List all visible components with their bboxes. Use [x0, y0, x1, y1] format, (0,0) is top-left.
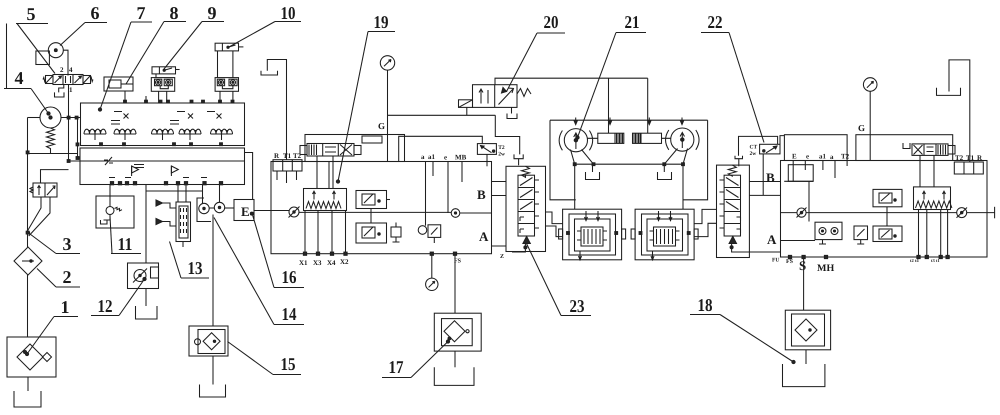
- svg-text:12: 12: [98, 296, 113, 316]
- gauge 19: [380, 56, 394, 70]
- wire filter2 to box1: [27, 275, 29, 337]
- svg-text:FU: FU: [772, 258, 779, 264]
- proportional valve right: [903, 143, 910, 149]
- wire cartridge bottom down: [762, 154, 764, 196]
- wires motors to gear blocks: [575, 164, 683, 209]
- svg-text:4: 4: [69, 66, 73, 74]
- right rail circle: [957, 208, 967, 218]
- drain tanks under motors: [592, 164, 594, 172]
- label 20 leader: [507, 12, 566, 92]
- valve 20 supply drop: [466, 107, 468, 115]
- svg-text:e: e: [806, 153, 809, 161]
- pilot unit 10 top bar: [215, 43, 243, 51]
- label 8 leader: [126, 3, 186, 84]
- svg-text:a: a: [421, 153, 425, 161]
- wire left edge pilot: [6, 24, 8, 89]
- wires left manifold to left stack: [492, 182, 507, 247]
- wires right stack to right manifold: [749, 182, 780, 196]
- svg-text:3: 3: [63, 234, 72, 254]
- left manifold outer block: [271, 162, 492, 254]
- label 5 leader: [16, 4, 55, 74]
- left stack valve 23 target: [506, 166, 546, 251]
- svg-text:21: 21: [625, 12, 640, 32]
- proportional valve on top sub-block: [300, 144, 361, 157]
- left brake cylinder: [598, 133, 624, 143]
- cartridge above left stack: [477, 144, 505, 158]
- left motor 21: [559, 129, 593, 152]
- manifold pump circle: [289, 207, 299, 217]
- svg-text:S: S: [799, 258, 806, 273]
- valve 20 body: [473, 85, 518, 108]
- wire E box to manifold pump: [254, 210, 289, 212]
- svg-text:a1: a1: [819, 153, 827, 161]
- svg-text:5: 5: [27, 4, 36, 24]
- ports R T1 T2: [273, 152, 302, 171]
- internal feed wires: [425, 162, 427, 226]
- svg-text:18: 18: [698, 295, 713, 315]
- inner corner rect: [788, 165, 813, 182]
- rail end bar: [967, 212, 995, 214]
- svg-text:G: G: [378, 121, 385, 131]
- wire 8 down: [124, 91, 126, 103]
- svg-text:10: 10: [281, 3, 296, 23]
- label 17 leader: [382, 340, 450, 378]
- block1 top port squares: [124, 100, 127, 103]
- wire x68.5 down: [68, 118, 70, 162]
- svg-text:a: a: [830, 153, 834, 161]
- svg-text:FS: FS: [786, 259, 794, 265]
- svg-text:B: B: [766, 170, 775, 185]
- svg-text:2: 2: [60, 66, 64, 74]
- svg-text:4: 4: [15, 68, 24, 88]
- filter 18: [785, 310, 830, 350]
- valve 11: [96, 196, 134, 228]
- label 1 leader: [25, 297, 78, 356]
- label 4 leader: [4, 68, 50, 115]
- valve 3: [30, 183, 57, 197]
- svg-text:t2 t4: t2 t4: [910, 258, 919, 263]
- main rail left manifold: [299, 211, 451, 213]
- E box 16: [234, 200, 254, 221]
- relief box right B: [873, 226, 902, 242]
- pump 6 circle: [48, 43, 63, 58]
- wire pump4 left to main suction bus: [28, 117, 41, 119]
- wire block1 x146 up: [145, 96, 147, 103]
- label 3 leader: [26, 231, 80, 254]
- label 14 leader: [214, 218, 304, 325]
- svg-text:1: 1: [61, 297, 70, 317]
- motor container: [550, 119, 708, 121]
- wire valve20 drain branch down: [495, 115, 519, 154]
- manifold block 1: [81, 103, 245, 146]
- drain tank top (left manifold return): [267, 60, 286, 160]
- relief valve box B: [356, 223, 387, 243]
- tank under box1: [27, 377, 29, 391]
- wires 9 down: [156, 74, 167, 103]
- wire cartridge across to drain tank: [739, 136, 778, 155]
- svg-text:MB: MB: [455, 154, 467, 162]
- compensator outputs to X ports: [305, 211, 346, 253]
- small valve with drain: [391, 223, 401, 243]
- restrictor on bus: [105, 157, 112, 165]
- label 23 leader: [527, 244, 592, 317]
- wire cartridge to right manifold: [780, 136, 784, 145]
- relief box right A: [873, 189, 902, 206]
- svg-text:20: 20: [544, 12, 559, 32]
- svg-text:15: 15: [281, 354, 296, 374]
- box 1 (pump unit with filter): [7, 337, 56, 377]
- svg-text:e: e: [444, 154, 447, 162]
- valve 20 solenoid: [459, 100, 473, 108]
- valve 12: [128, 263, 159, 289]
- wire block2 to E box top: [245, 153, 253, 200]
- wire S to filter 18: [803, 259, 805, 311]
- label 10 leader: [229, 3, 301, 47]
- wires to valve 13: [178, 185, 186, 203]
- wire pump4 to block1: [61, 117, 81, 119]
- ports T2 T1 R right: [954, 154, 983, 174]
- right manifold outer block: [781, 161, 988, 258]
- svg-text:14: 14: [282, 304, 297, 324]
- wire y153.5: [28, 153, 78, 155]
- right rail: [781, 212, 797, 214]
- svg-text:X1: X1: [299, 259, 308, 267]
- label 19 leader: [336, 12, 395, 183]
- pumps 14: [199, 203, 209, 213]
- block2 bottom port marks: [110, 182, 113, 185]
- pilot solenoid valve on rail: [418, 225, 441, 243]
- label 22 leader: [701, 12, 764, 143]
- label 12 leader: [91, 277, 146, 316]
- wire pumps to filter 15: [212, 215, 214, 327]
- bus inside block2: [69, 160, 245, 162]
- wire valve5 port down to pump line: [68, 85, 70, 118]
- svg-text:E: E: [241, 204, 250, 219]
- svg-text:13: 13: [188, 258, 203, 278]
- svg-text:G: G: [858, 123, 865, 133]
- stack 23 bottom arrow: [523, 236, 530, 243]
- svg-text:X2: X2: [340, 258, 349, 266]
- gear pump box right: [815, 222, 842, 244]
- label 11 leader: [110, 217, 141, 255]
- compensator outputs to bottom ports: [919, 210, 948, 256]
- svg-text:t3 t1: t3 t1: [931, 258, 940, 263]
- label 7 leader: [98, 3, 152, 111]
- svg-text:9: 9: [208, 3, 217, 23]
- label 9 leader: [164, 3, 224, 69]
- svg-text:2: 2: [63, 267, 72, 287]
- svg-text:7: 7: [137, 3, 146, 23]
- tank under 15: [212, 356, 214, 385]
- svg-text:X4: X4: [327, 259, 336, 267]
- motor drain bus: [575, 163, 683, 165]
- compensator right spring row: [914, 187, 951, 210]
- svg-text:2w: 2w: [750, 151, 757, 157]
- svg-text:T1: T1: [283, 152, 292, 160]
- right stack bottom arrow: [729, 236, 736, 243]
- valve 5 drain tank: [59, 85, 64, 93]
- tank top right: [949, 60, 970, 162]
- right brake cylinder: [633, 133, 662, 143]
- wire valve3 top: [41, 170, 69, 183]
- relief valve box A: [356, 191, 390, 209]
- svg-text:23: 23: [570, 296, 585, 316]
- small valve with drain right: [854, 226, 868, 244]
- gauge under left manifold: [431, 255, 433, 278]
- svg-text:B: B: [477, 187, 486, 202]
- wires valve3 down to bus: [28, 197, 41, 230]
- wire pump6 to valve5: [63, 50, 68, 75]
- drain tank above right stack: [735, 156, 743, 159]
- svg-text:E: E: [792, 153, 797, 161]
- valve 20 spring: [517, 89, 531, 97]
- label 13 leader: [170, 242, 210, 279]
- gauge right: [863, 78, 877, 92]
- svg-text:11: 11: [118, 234, 133, 254]
- wire pumps to E box: [225, 207, 234, 209]
- wire to valve 11: [109, 185, 111, 207]
- wire to valve 12: [145, 185, 147, 264]
- svg-text:6: 6: [91, 3, 100, 23]
- svg-text:1: 1: [69, 86, 73, 94]
- feeds prop valve to compensator left: [317, 156, 333, 189]
- compensator spring row: [304, 189, 347, 211]
- wire FS to filter 17: [454, 255, 456, 313]
- valve 20 drain to tank: [511, 107, 513, 113]
- brake feed drops: [609, 78, 648, 133]
- label 2 leader: [37, 267, 80, 287]
- valve clusters inside block1: [84, 129, 106, 140]
- svg-text:T1: T1: [966, 154, 975, 162]
- spring under pump 4: [47, 128, 55, 154]
- svg-text:16: 16: [282, 267, 297, 287]
- wire x77.5 down: [78, 118, 81, 159]
- right motor: [666, 128, 700, 151]
- label 6 leader: [60, 3, 107, 46]
- gear reduction block: [559, 209, 626, 260]
- valve 5 solenoids: [46, 76, 54, 84]
- wire subblock to cartridge left stack: [399, 136, 483, 161]
- wire G to valve20: [388, 114, 496, 116]
- container top ticks: [575, 118, 577, 124]
- valve 20 output to brake line: [495, 78, 648, 85]
- rail circle: [451, 209, 460, 218]
- svg-text:T2: T2: [498, 145, 505, 151]
- svg-text:A: A: [767, 232, 777, 247]
- svg-text:2w: 2w: [498, 152, 505, 158]
- filter 17: [434, 313, 481, 351]
- svg-text:8: 8: [170, 3, 179, 23]
- tank under 17: [454, 351, 456, 367]
- label 21 leader: [576, 12, 646, 139]
- tank under 12: [145, 289, 147, 307]
- block1 bottom port squares: [100, 143, 103, 146]
- svg-text:X3: X3: [313, 259, 322, 267]
- cylinder stubs: [588, 137, 671, 139]
- small drain tank right of cartridge: [514, 154, 523, 158]
- manifold block 2: [80, 148, 245, 185]
- wires stack to gear block: [546, 212, 563, 224]
- svg-text:T2: T2: [955, 154, 964, 162]
- svg-text:17: 17: [389, 357, 404, 377]
- svg-text:22: 22: [708, 12, 723, 32]
- label 15 leader: [228, 342, 302, 375]
- svg-text:CT: CT: [750, 145, 758, 151]
- bracket of pump 6: [36, 51, 50, 65]
- svg-text:R: R: [274, 152, 280, 160]
- right manifold pump circle: [797, 208, 806, 217]
- tank under 18: [805, 350, 807, 364]
- pump 4 circle: [40, 107, 61, 128]
- pilot unit 9 top bar: [152, 67, 180, 74]
- svg-text:MH: MH: [817, 263, 834, 274]
- cartridge 22: [750, 144, 781, 157]
- valve 5 body (4/3 directional): [53, 75, 83, 85]
- suction bus vertical: [27, 118, 29, 248]
- pilot unit 9 body: [151, 78, 174, 92]
- gear reduction block: [631, 209, 698, 260]
- wire cartridge to stack: [486, 154, 488, 166]
- block1 small marks: [114, 111, 215, 113]
- check valve a: [131, 166, 133, 176]
- pilot unit 10 body: [215, 78, 238, 92]
- svg-text:Z: Z: [500, 254, 504, 260]
- svg-text:a1: a1: [428, 153, 436, 161]
- feeds from prop valve to compensator: [920, 155, 934, 187]
- wires right gear block to right stack: [694, 209, 716, 223]
- filter 2 diamond: [14, 247, 42, 275]
- label 18 leader: [690, 295, 795, 364]
- svg-text:T2: T2: [841, 153, 850, 161]
- check valve b: [170, 166, 172, 176]
- motor drain diagonals: [571, 150, 594, 165]
- right stack valve: [717, 165, 750, 257]
- bottom port marks left manifold: [303, 252, 306, 255]
- filter 15: [189, 326, 228, 356]
- right manifold top sub-blocks: [784, 135, 847, 161]
- svg-text:19: 19: [374, 12, 389, 32]
- label 16 leader: [253, 216, 304, 288]
- valve 13: [156, 200, 191, 247]
- block2 small dashes: [134, 165, 144, 168]
- left manifold top sub-block: [305, 135, 405, 162]
- internal feed wires right: [793, 161, 847, 182]
- wires to pumps 14: [203, 185, 220, 204]
- wires 10: [218, 51, 233, 103]
- bottom marks right manifold: [788, 255, 791, 258]
- regulator 8: [104, 77, 133, 91]
- svg-text:A: A: [479, 229, 489, 244]
